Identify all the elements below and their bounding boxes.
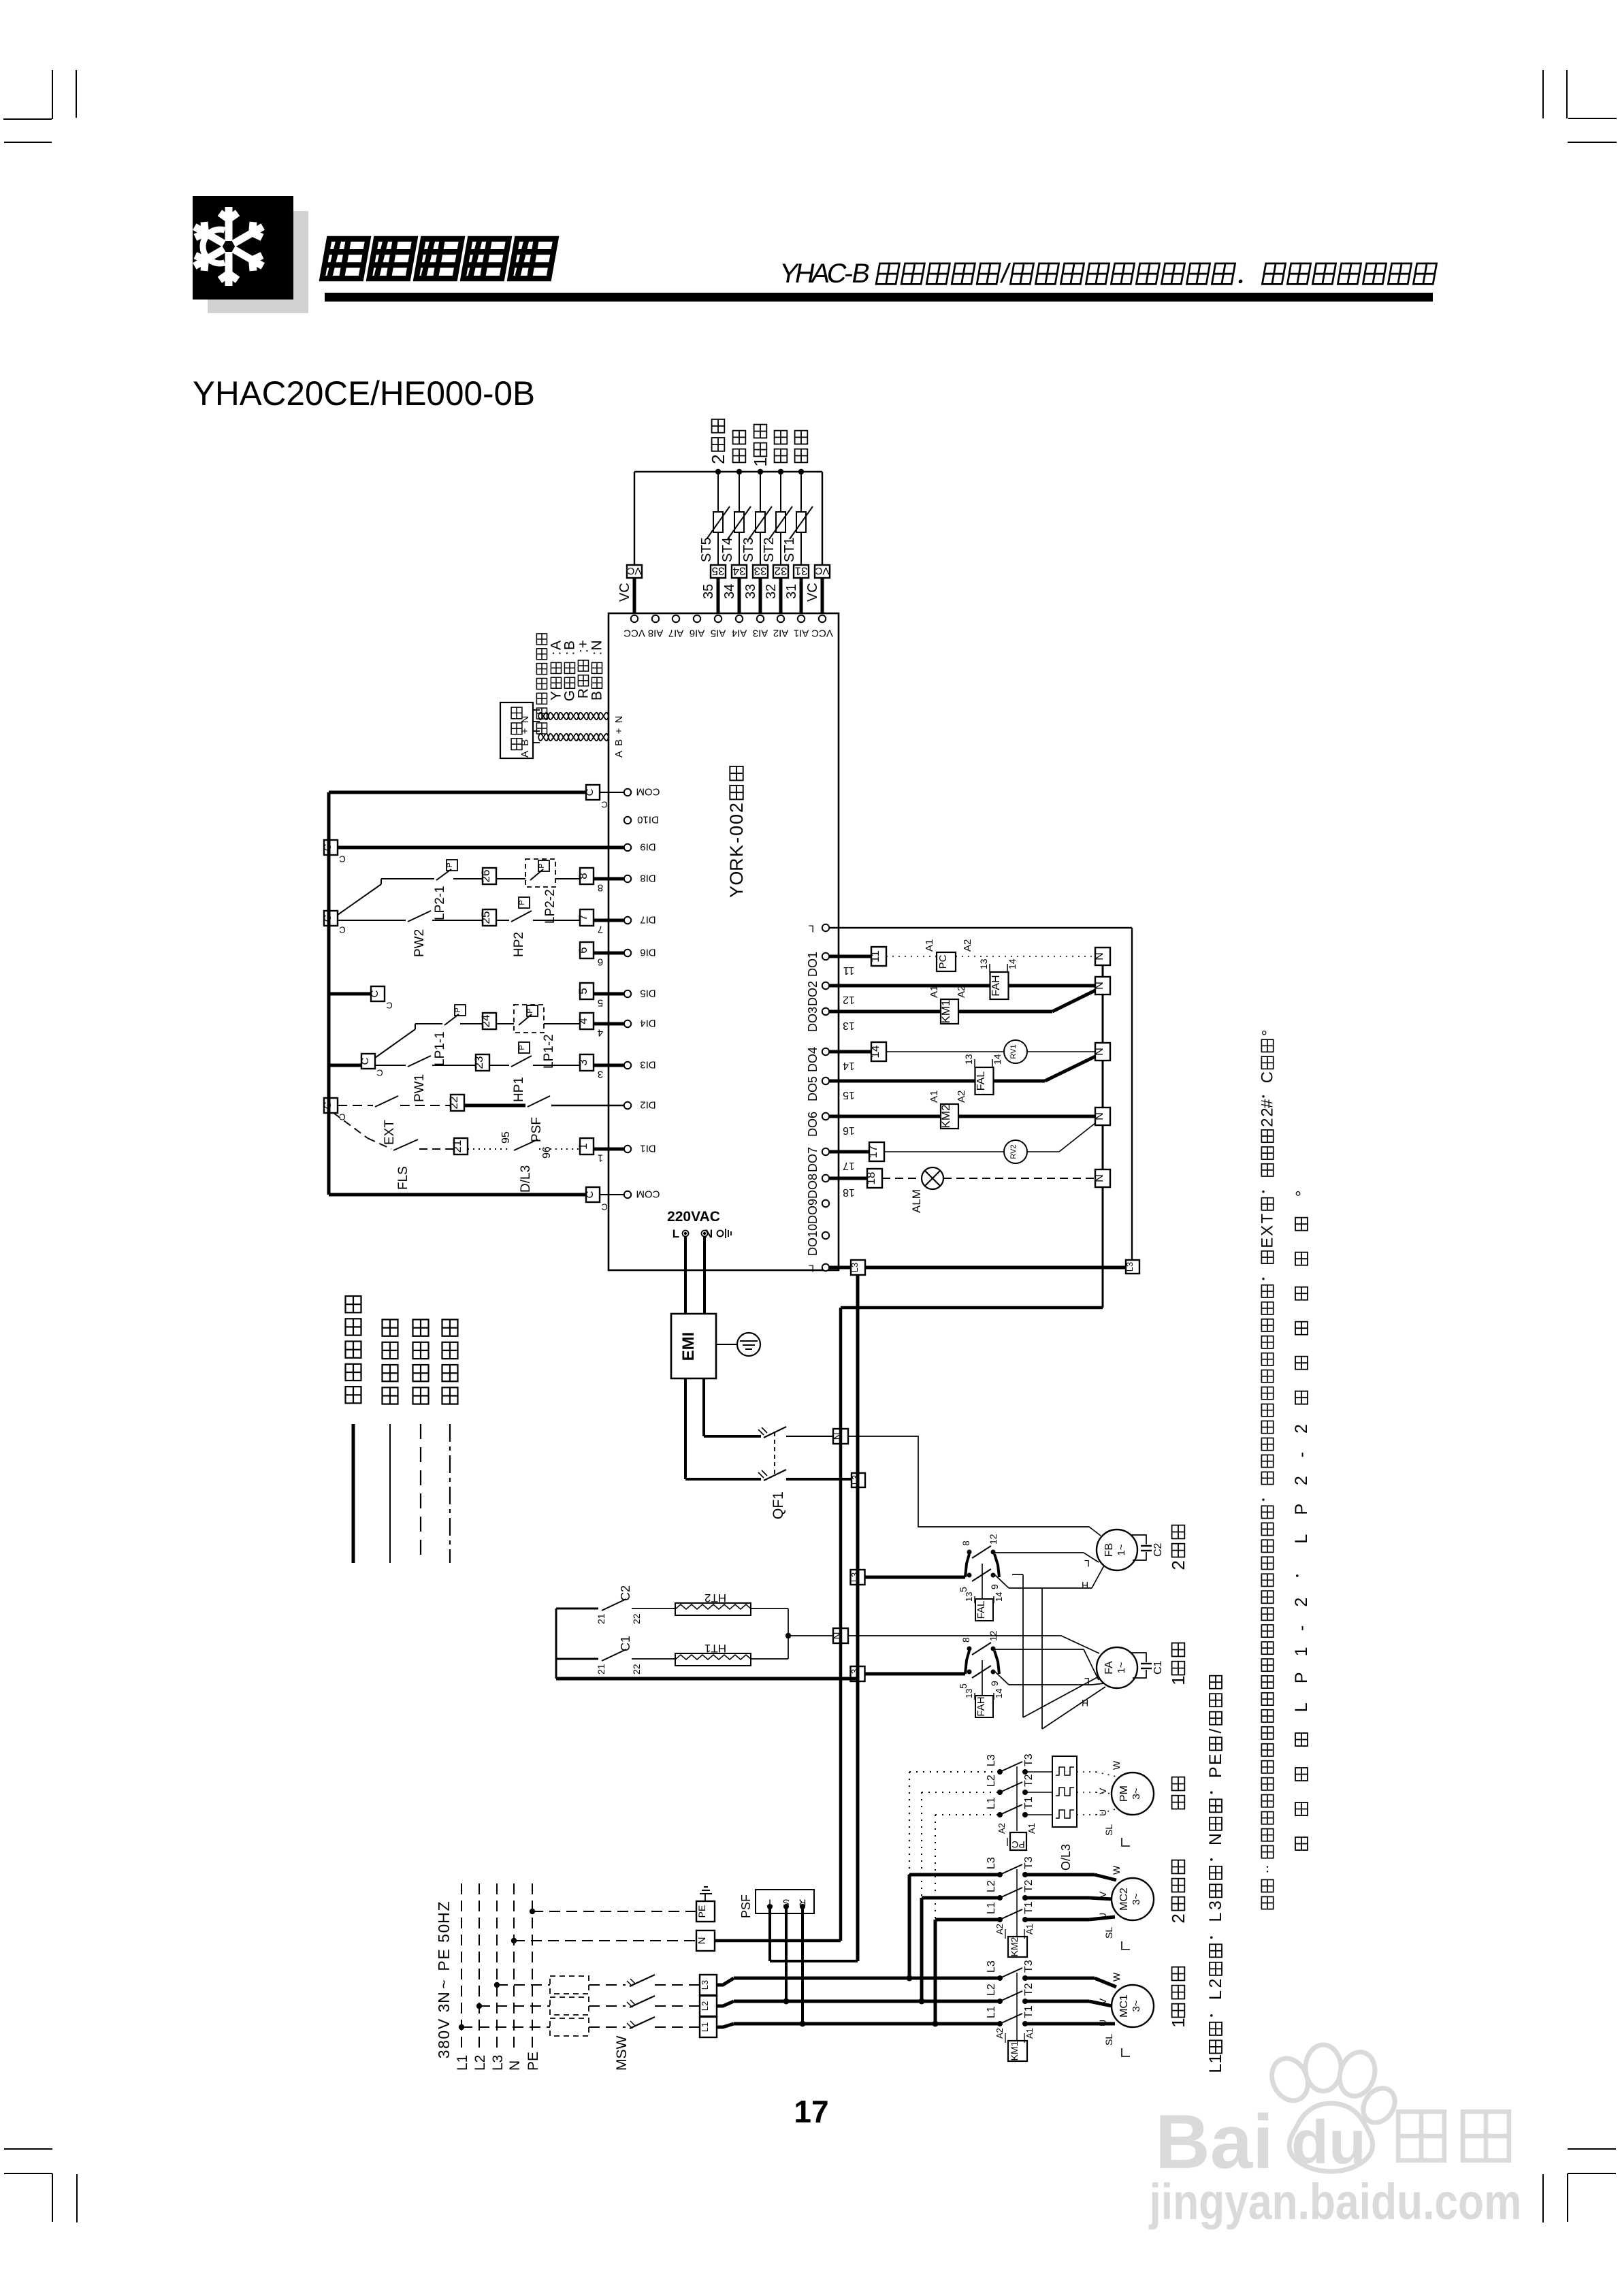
svg-text:C2: C2 [619,1585,632,1601]
svg-text:-: - [1292,1452,1311,1457]
svg-text:N: N [696,1937,708,1945]
svg-text:RV1: RV1 [1009,1044,1018,1058]
svg-text:6: 6 [577,947,589,953]
svg-text:N: N [435,1992,453,2003]
svg-text:33: 33 [754,564,767,577]
svg-text:DI1: DI1 [640,1143,655,1154]
svg-text:8: 8 [435,2040,453,2049]
svg-text:N: N [1094,1112,1105,1120]
svg-text:AI1: AI1 [794,628,809,639]
svg-text:C: C [339,924,345,935]
svg-text:L1: L1 [986,2006,997,2018]
svg-text:1: 1 [598,1152,603,1164]
svg-text:8: 8 [960,1637,971,1643]
svg-text:4: 4 [598,1027,603,1039]
svg-text:VC: VC [815,565,829,577]
svg-text:Bai: Bai [1155,2099,1274,2184]
svg-text:22: 22 [631,1664,642,1675]
svg-text:14: 14 [992,1054,1003,1065]
svg-text:P: P [1292,1504,1311,1515]
svg-text:PW1: PW1 [412,1074,427,1102]
svg-text:C1: C1 [619,1636,632,1651]
svg-text:31: 31 [784,584,799,599]
svg-text:K: K [726,845,747,857]
svg-text:L2: L2 [986,1880,997,1892]
svg-text:N: N [507,2060,523,2071]
svg-text:26: 26 [479,870,492,883]
svg-text:DO4: DO4 [806,1047,820,1072]
svg-text:DI6: DI6 [640,947,655,958]
svg-text:AI5: AI5 [711,628,726,639]
svg-text:5: 5 [958,1683,969,1689]
svg-text:3~: 3~ [1131,2000,1142,2011]
svg-text:DO2: DO2 [806,981,820,1006]
svg-text:220VAC: 220VAC [667,1209,720,1225]
svg-text:+: + [519,728,531,734]
svg-text:16: 16 [843,1125,855,1136]
svg-text:9: 9 [989,1681,1000,1686]
svg-text:8: 8 [577,873,589,879]
svg-text:2: 2 [1168,1560,1188,1570]
svg-text:L3: L3 [700,1980,710,1990]
svg-text:H: H [1082,1580,1088,1591]
svg-text:N: N [1094,982,1105,990]
svg-text:A2: A2 [997,1823,1007,1834]
svg-text:LP2-2: LP2-2 [543,889,557,924]
svg-text:N: N [1206,1833,1225,1845]
svg-text:2: 2 [1292,1598,1311,1607]
svg-text:35: 35 [701,584,716,599]
svg-text:14: 14 [843,1060,855,1071]
svg-text:7: 7 [598,924,603,935]
svg-text:PSF: PSF [530,1117,544,1142]
svg-text:E: E [1206,1753,1225,1765]
svg-text:1: 1 [577,1143,589,1149]
svg-text:A2: A2 [956,986,967,998]
svg-text:AI8: AI8 [648,628,664,639]
svg-text:6: 6 [598,956,603,968]
svg-text:KM2: KM2 [939,1105,952,1129]
svg-text:A1: A1 [1026,1823,1037,1834]
svg-text:O: O [726,871,747,886]
svg-text:MSW: MSW [614,2036,630,2071]
svg-text:31: 31 [795,564,808,577]
svg-text:24: 24 [479,1015,492,1028]
svg-text:EXT: EXT [383,1120,397,1145]
svg-text:U: U [1097,2020,1108,2026]
svg-text:13: 13 [964,1689,974,1698]
svg-text:2: 2 [708,454,728,464]
svg-text:B: B [613,739,625,746]
svg-text:2: 2 [1259,1107,1277,1116]
svg-text:PM: PM [1118,1785,1130,1802]
svg-text:L1: L1 [700,2022,710,2032]
svg-text:5: 5 [577,988,589,994]
svg-text:ST2: ST2 [762,537,777,562]
svg-text:C: C [339,854,345,864]
svg-text:Y: Y [726,886,747,898]
svg-text:HP1: HP1 [512,1077,526,1102]
svg-text:34: 34 [722,584,737,599]
svg-text:AI6: AI6 [690,628,705,639]
svg-text:V: V [435,2018,453,2029]
svg-text:FAH: FAH [975,1696,987,1716]
svg-text:FA: FA [1103,1661,1115,1675]
svg-text:N: N [1094,1174,1105,1182]
svg-text:A: A [613,751,625,758]
svg-text:C: C [322,914,334,922]
svg-text:PC: PC [937,954,949,969]
svg-text:L2: L2 [986,1984,997,1996]
svg-text:1~: 1~ [1116,1544,1127,1555]
svg-text:L: L [1292,1534,1311,1544]
svg-text:1: 1 [1168,1675,1188,1685]
svg-text:1: 1 [1168,2018,1188,2027]
svg-text:96: 96 [541,1146,553,1159]
svg-text:L2: L2 [472,2055,488,2071]
svg-text:ST3: ST3 [741,537,756,562]
svg-text:EMI: EMI [679,1332,698,1361]
svg-text:C: C [601,799,607,809]
svg-text:FAL: FAL [975,1601,987,1619]
svg-text:AI2: AI2 [773,628,789,639]
svg-text:N: N [613,716,625,724]
svg-text:PSF: PSF [739,1894,753,1918]
svg-text:L: L [1206,1990,1225,2000]
svg-text:L3: L3 [986,1960,997,1973]
svg-text:P: P [1292,1672,1311,1683]
svg-text:SL: SL [1103,1927,1114,1939]
svg-text:14: 14 [869,1046,881,1058]
svg-text:DI9: DI9 [640,841,655,853]
svg-text:L3: L3 [986,1754,997,1766]
svg-text:T3: T3 [1023,1856,1035,1869]
svg-text:32: 32 [764,584,779,599]
svg-text:T2: T2 [1023,1983,1035,1996]
svg-text:13: 13 [978,958,989,969]
svg-text:ST4: ST4 [720,537,735,562]
svg-text:PE: PE [525,2052,541,2071]
svg-text:L: L [673,1227,679,1240]
svg-text:13: 13 [963,1054,974,1065]
svg-text:HT2: HT2 [704,1591,726,1604]
svg-text:PW2: PW2 [412,929,427,957]
svg-text:jingyan.baidu.com: jingyan.baidu.com [1148,2173,1522,2230]
svg-text:~: ~ [435,1979,453,1988]
svg-text:L1: L1 [455,2055,470,2071]
svg-text:COM: COM [636,786,660,798]
svg-text:DO7: DO7 [806,1147,820,1172]
svg-text:L: L [1206,1913,1225,1922]
svg-text:L3: L3 [849,1263,860,1272]
svg-text:B: B [589,691,605,700]
svg-text:L3: L3 [850,1475,860,1485]
svg-text:1: 1 [750,457,771,466]
svg-text:5: 5 [435,1934,453,1943]
svg-text:LP1-2: LP1-2 [542,1034,556,1069]
svg-text:AI3: AI3 [753,628,768,639]
svg-text:SL: SL [1103,1824,1114,1836]
svg-text:25: 25 [479,911,492,924]
svg-text:PC: PC [1011,1839,1024,1850]
svg-text:VCC: VCC [623,628,645,639]
svg-text:8: 8 [598,882,603,894]
svg-text:L3: L3 [490,2055,506,2071]
svg-text:2: 2 [1292,1476,1311,1485]
svg-text:N: N [1094,1048,1105,1056]
svg-text:1~: 1~ [1116,1662,1127,1673]
svg-text:MC2: MC2 [1118,1888,1130,1911]
svg-text:A2: A2 [956,1090,967,1103]
svg-text:5: 5 [598,997,603,1009]
svg-text:DI4: DI4 [640,1018,655,1029]
svg-text:LP2-1: LP2-1 [433,886,447,920]
svg-text:L: L [1292,1702,1311,1712]
svg-text:R: R [726,858,747,871]
svg-text:DI8: DI8 [640,873,655,884]
svg-text:0: 0 [435,2031,453,2039]
svg-text:N: N [589,640,605,650]
svg-text:DI5: DI5 [640,988,655,999]
svg-text:U: U [1097,1913,1108,1920]
svg-text:MC1: MC1 [1118,1994,1130,2018]
svg-text:P: P [454,1007,462,1012]
svg-text:C: C [386,1000,392,1010]
svg-text:3: 3 [435,2004,453,2013]
svg-text:21: 21 [596,1664,606,1675]
svg-text:T3: T3 [1023,1753,1035,1766]
svg-text:L3: L3 [849,1669,860,1679]
svg-text:A2: A2 [962,939,973,952]
svg-text:DI3: DI3 [640,1059,655,1071]
svg-text:2: 2 [726,803,747,813]
svg-text:A1: A1 [1024,1924,1035,1935]
svg-text:E: E [435,1949,453,1959]
svg-text:L: L [809,923,814,935]
svg-text:A1: A1 [1024,2028,1035,2039]
svg-text:13: 13 [964,1592,974,1602]
svg-text:SL: SL [1103,2034,1114,2046]
svg-text:8: 8 [960,1540,971,1546]
svg-text:T2: T2 [1023,1774,1035,1787]
svg-text:HT1: HT1 [704,1642,726,1655]
svg-text:Z: Z [435,1901,453,1911]
svg-text:N: N [832,1433,843,1440]
svg-text:3~: 3~ [1131,1893,1142,1905]
svg-text:T3: T3 [1023,1960,1035,1973]
svg-text:7: 7 [577,914,589,920]
svg-text:X: X [1259,1225,1277,1236]
svg-text:11: 11 [869,950,881,963]
svg-text:12: 12 [988,1534,999,1545]
svg-text:U: U [1097,1809,1108,1816]
svg-text:HP2: HP2 [512,932,526,957]
svg-text:DO10: DO10 [806,1224,820,1256]
svg-text:DO1: DO1 [806,952,820,977]
svg-text:17: 17 [866,1146,879,1159]
svg-text:0: 0 [435,1924,453,1933]
svg-text:LP1-1: LP1-1 [433,1031,447,1066]
svg-text:COM: COM [636,1189,660,1200]
svg-text:C: C [584,788,596,796]
svg-text:4: 4 [577,1018,589,1024]
svg-text:A: A [519,751,531,758]
svg-text:AI7: AI7 [668,628,684,639]
svg-text:C1: C1 [1152,1660,1164,1675]
svg-text:ST5: ST5 [699,537,714,562]
svg-text:3: 3 [435,2050,453,2058]
svg-text:VCC: VCC [811,628,833,639]
svg-text:2: 2 [1259,1118,1277,1127]
svg-text:E: E [1259,1238,1277,1248]
svg-text:18: 18 [843,1186,855,1198]
svg-text:11: 11 [843,965,855,976]
svg-text:P: P [518,1045,526,1050]
svg-text:H: H [435,1912,453,1924]
svg-text:C: C [322,1101,334,1109]
svg-text:14: 14 [1007,958,1018,969]
svg-text:T1: T1 [1023,1901,1035,1914]
svg-text:C: C [1259,1071,1277,1083]
svg-text:FAL: FAL [975,1071,987,1091]
svg-text:AI4: AI4 [732,628,747,639]
svg-text:32: 32 [775,564,788,577]
svg-text:2: 2 [1168,1913,1188,1923]
svg-text:+: + [613,728,625,734]
svg-text:C: C [601,1201,607,1212]
svg-text:12: 12 [843,994,855,1005]
svg-text:C: C [376,1067,383,1078]
svg-text:/: / [1206,1728,1225,1733]
svg-text:13: 13 [843,1020,855,1031]
svg-text:P: P [435,1960,453,1971]
svg-text:ALM: ALM [910,1189,923,1213]
svg-text:L3: L3 [849,1572,860,1582]
svg-text:VC: VC [617,583,632,602]
svg-text:L1: L1 [986,1797,997,1809]
svg-text:17: 17 [794,2094,828,2129]
svg-text:DI2: DI2 [640,1099,655,1111]
svg-text::: : [589,651,605,656]
svg-text:3: 3 [598,1069,603,1080]
svg-text:L2: L2 [986,1775,997,1787]
svg-text:3~: 3~ [1131,1788,1142,1799]
svg-text:9: 9 [989,1584,1000,1589]
svg-text:RV2: RV2 [1009,1144,1018,1159]
svg-text:1: 1 [1206,2054,1225,2064]
svg-text:-: - [1292,1626,1311,1631]
svg-text:34: 34 [733,564,746,577]
svg-text:A1: A1 [928,986,940,998]
svg-text:21: 21 [596,1613,606,1624]
svg-text:P: P [518,900,526,905]
svg-text:95: 95 [500,1131,512,1144]
svg-text:N: N [519,716,531,724]
svg-text:DO3: DO3 [806,1007,820,1032]
svg-text:15: 15 [843,1089,855,1101]
svg-text:17: 17 [843,1160,855,1171]
svg-text:DO9: DO9 [806,1199,820,1224]
svg-text:KM1: KM1 [939,1000,952,1024]
svg-text:PE: PE [696,1905,707,1918]
svg-text:P: P [526,1008,534,1013]
svg-text:A1: A1 [928,1090,940,1103]
svg-text:0: 0 [726,826,747,836]
svg-text:du: du [1291,2109,1366,2177]
svg-text:VC: VC [805,583,820,602]
svg-text:T: T [1259,1214,1277,1224]
svg-text:L2: L2 [700,2001,710,2011]
svg-text:A1: A1 [924,939,935,952]
svg-text:L3: L3 [1124,1262,1135,1272]
svg-text:FLS: FLS [396,1166,410,1190]
svg-text:A2: A2 [994,1924,1005,1935]
svg-text:C: C [584,1191,596,1198]
svg-text:C2: C2 [1152,1542,1164,1557]
svg-text:N: N [832,1632,843,1640]
svg-text:L: L [809,1263,814,1274]
svg-text:V: V [1097,1891,1108,1898]
svg-text:L3: L3 [986,1857,997,1869]
svg-text:2: 2 [1206,1979,1225,1988]
svg-text:D/L3: D/L3 [519,1165,533,1193]
svg-text:FB: FB [1103,1543,1115,1557]
svg-text:0: 0 [726,814,747,824]
svg-text:L: L [1084,1558,1090,1569]
svg-text:L1: L1 [986,1902,997,1914]
svg-text:21: 21 [451,1140,464,1153]
svg-text:1: 1 [1292,1647,1311,1656]
svg-text:18: 18 [864,1172,877,1185]
svg-text:DI10: DI10 [637,814,659,826]
svg-text:23: 23 [472,1056,485,1069]
svg-text:P: P [538,863,546,868]
svg-text:A2: A2 [994,2028,1005,2039]
svg-text:5: 5 [958,1587,969,1592]
svg-text:DO8: DO8 [806,1174,820,1199]
svg-text:DI7: DI7 [640,914,655,926]
svg-text:N: N [1094,952,1105,960]
svg-text:B: B [519,739,531,746]
svg-text:DO5: DO5 [806,1076,820,1101]
svg-text:YHAC20CE/HE000-0B: YHAC20CE/HE000-0B [193,374,535,413]
svg-text:KM1: KM1 [1009,2041,1020,2060]
svg-text:22: 22 [447,1097,460,1110]
svg-text:O/L3: O/L3 [1059,1844,1073,1871]
svg-text:L: L [1206,2063,1225,2073]
svg-text:T1: T1 [1023,2005,1035,2018]
svg-text:QF1: QF1 [771,1491,786,1519]
svg-text:33: 33 [743,584,758,599]
svg-text:T1: T1 [1023,1796,1035,1809]
svg-text:3: 3 [577,1059,589,1065]
svg-text:-: - [726,837,747,843]
svg-text:C: C [322,843,334,851]
svg-text:P: P [1206,1766,1225,1778]
svg-text:DO6: DO6 [806,1112,820,1137]
svg-text:T2: T2 [1023,1879,1035,1892]
svg-text:P: P [446,862,454,867]
svg-text:V: V [1097,1788,1108,1794]
svg-text:22: 22 [631,1613,642,1624]
svg-text:V: V [1097,1998,1108,2005]
svg-text:3: 3 [1206,1901,1225,1910]
svg-text:FAH: FAH [990,975,1002,996]
svg-text:KM2: KM2 [1009,1937,1020,1956]
svg-text:14: 14 [994,1689,1004,1698]
svg-text:2: 2 [1292,1424,1311,1434]
svg-text:W: W [1111,1760,1122,1770]
